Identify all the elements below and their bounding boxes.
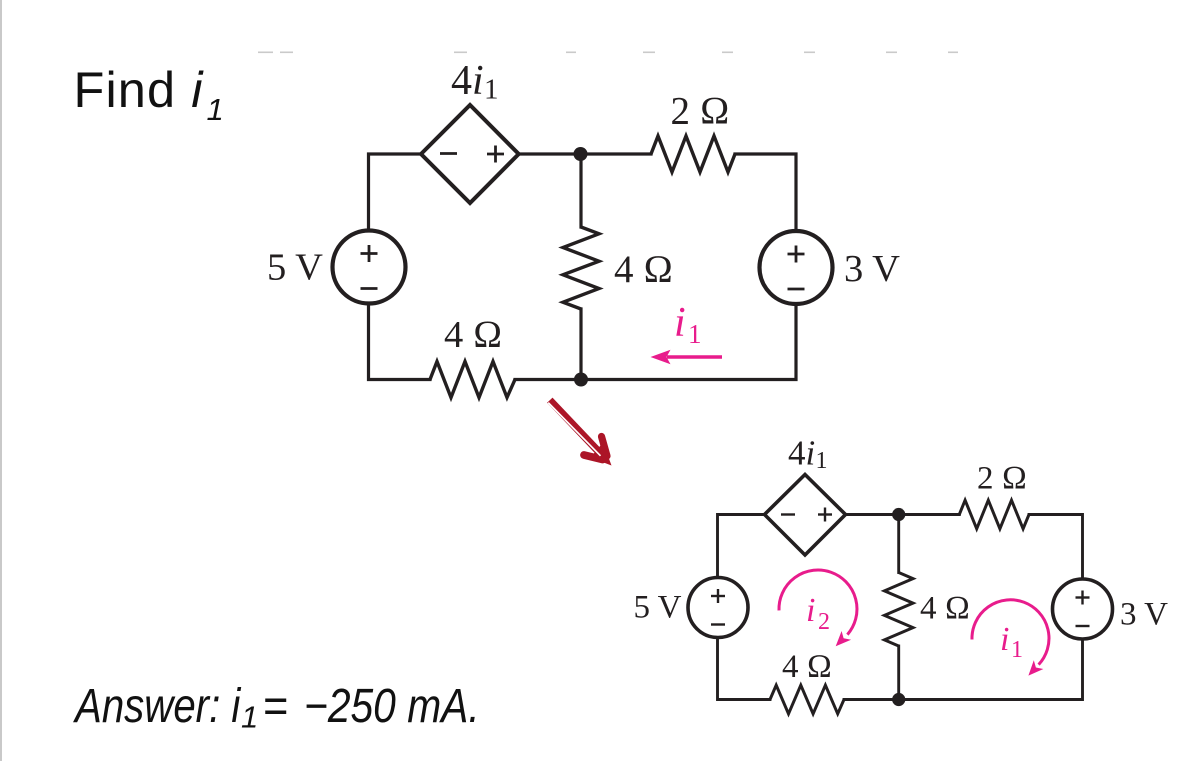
svg-text:5 V: 5 V — [634, 590, 682, 626]
mesh arrowhead i2 — [836, 631, 851, 646]
resistor 2 ohm (bottom circuit) — [959, 500, 1029, 529]
svg-text:1: 1 — [207, 92, 224, 127]
wire middle branch upper — [579, 154, 582, 227]
resistor 4 ohm bottom (bottom circuit) — [770, 685, 844, 714]
voltage source 3 V (circle) — [760, 231, 833, 304]
wire middle branch lower (bottom circuit) — [897, 646, 900, 700]
transition arrow (dark red, hand-drawn style) — [548, 400, 611, 465]
svg-text:4 Ω: 4 Ω — [782, 649, 832, 685]
diamond plus sign — [487, 146, 504, 163]
svg-text:5 V: 5 V — [267, 247, 323, 289]
dependent source 4i1 (diamond) — [421, 105, 519, 203]
node dot bottom (bottom circuit) — [892, 693, 905, 706]
svg-text:i: i — [806, 592, 815, 629]
wire middle branch upper (bottom circuit) — [897, 515, 900, 573]
left edge gray border — [0, 0, 2, 761]
wire top middle (bottom circuit) — [846, 513, 960, 516]
mesh current label i1 (pink) — [1000, 621, 1023, 663]
svg-text:4 Ω: 4 Ω — [614, 248, 673, 291]
diamond minus sign — [440, 152, 457, 155]
svg-text:=: = — [263, 679, 288, 733]
svg-text:Answer: i: Answer: i — [72, 680, 241, 733]
mesh current arrow i1 (pink circular arc) — [972, 600, 1049, 665]
node dot top — [574, 147, 588, 161]
current label i1 (pink) — [674, 300, 702, 349]
5V plus sign — [361, 245, 378, 262]
wire top middle (diamond to 2-ohm) — [519, 152, 651, 155]
voltage source 5 V (circle) — [333, 231, 406, 304]
5V minus sign — [361, 287, 378, 290]
svg-text:1: 1 — [816, 448, 828, 474]
resistor 4 ohm middle (bottom circuit) — [884, 573, 913, 647]
svg-text:4 Ω: 4 Ω — [920, 590, 970, 626]
wire right vertical bottom (bottom circuit) — [844, 639, 1083, 700]
svg-text:i: i — [1000, 621, 1009, 658]
svg-text:2: 2 — [818, 609, 830, 635]
label 4i1 (top diamond) — [451, 58, 499, 106]
3V plus sign (bottom circuit) — [1076, 591, 1090, 605]
current arrow i1 (pink, pointing left) — [651, 350, 723, 365]
svg-text:1: 1 — [484, 74, 499, 106]
3V minus sign — [788, 288, 805, 291]
resistor 4 ohm (bottom) — [430, 362, 515, 398]
wire middle branch lower — [579, 309, 582, 380]
svg-text:3 V: 3 V — [844, 248, 900, 290]
wire left vertical top (bottom circuit) — [718, 515, 765, 578]
svg-text:−250 mA.: −250 mA. — [304, 680, 480, 733]
answer text — [72, 679, 479, 735]
svg-text:1: 1 — [1011, 637, 1023, 663]
voltage source 3 V circle (bottom circuit) — [1053, 579, 1113, 639]
svg-text:1: 1 — [241, 700, 258, 735]
dependent source 4i1 diamond (bottom circuit) — [765, 475, 846, 556]
svg-text:Find i: Find i — [74, 61, 205, 118]
wire top right corner (bottom circuit) — [1029, 515, 1083, 580]
3V plus sign — [788, 246, 805, 263]
mesh current arrow i2 (pink circular arc) — [779, 570, 857, 635]
voltage source 5 V circle (bottom circuit) — [688, 578, 748, 638]
svg-text:i: i — [674, 300, 686, 346]
title: Find i1 — [74, 61, 224, 127]
svg-text:4i: 4i — [451, 58, 484, 104]
svg-text:3 V: 3 V — [1120, 597, 1168, 633]
mesh current label i2 (pink) — [806, 592, 830, 635]
wire left vertical bottom — [369, 304, 431, 380]
resistor 2 ohm (top) — [651, 136, 735, 172]
resistor 4 ohm (middle vertical) — [563, 227, 599, 309]
wire left vertical bottom (bottom circuit) — [718, 638, 771, 700]
3V minus sign (bottom circuit) — [1076, 625, 1090, 627]
5V plus sign (bottom circuit) — [711, 589, 725, 603]
svg-text:4i: 4i — [788, 434, 815, 473]
svg-text:2 Ω: 2 Ω — [671, 90, 730, 133]
mesh arrowhead i1 — [1028, 660, 1043, 675]
cropped heading remnants (faint gray dashes) — [258, 52, 958, 54]
label 4i1 (bottom circuit) — [788, 434, 828, 475]
wire right vertical bottom — [515, 304, 796, 380]
svg-text:2 Ω: 2 Ω — [977, 461, 1027, 497]
wire top right corner — [735, 154, 796, 231]
wire left vertical top (5V to top-left corner) — [369, 154, 422, 231]
diamond plus sign (bottom circuit) — [818, 508, 832, 522]
svg-text:1: 1 — [688, 319, 702, 349]
node dot top (bottom circuit) — [892, 508, 905, 521]
node dot bottom — [574, 373, 588, 387]
5V minus sign (bottom circuit) — [711, 623, 725, 625]
diamond minus sign (bottom circuit) — [781, 513, 795, 515]
svg-text:4 Ω: 4 Ω — [444, 314, 502, 356]
